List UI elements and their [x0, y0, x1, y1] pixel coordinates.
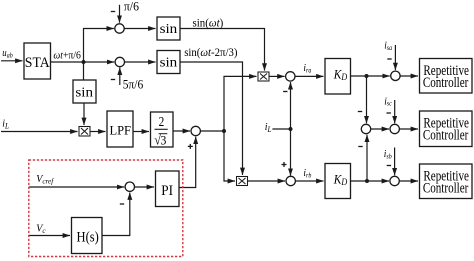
svg-text:Controller: Controller: [423, 74, 469, 91]
svg-text:Vcref: Vcref: [36, 174, 54, 185]
svg-text:uab: uab: [2, 47, 13, 59]
svg-text:irb: irb: [303, 168, 312, 180]
svg-text:isa: isa: [384, 40, 392, 52]
svg-text:LPF: LPF: [109, 123, 131, 137]
svg-text:Controller: Controller: [423, 126, 469, 143]
svg-text:sin: sin: [160, 22, 178, 37]
svg-text:STA: STA: [25, 55, 51, 71]
svg-text:iL: iL: [265, 122, 272, 134]
svg-text:iL: iL: [2, 118, 9, 130]
svg-text:2: 2: [159, 114, 165, 129]
svg-text:Vc: Vc: [36, 223, 46, 235]
svg-text:sin(ωt): sin(ωt): [193, 17, 224, 30]
svg-text:isb: isb: [384, 149, 393, 161]
svg-text:sin(ωt-2π/3): sin(ωt-2π/3): [184, 46, 237, 59]
svg-text:3: 3: [160, 133, 166, 148]
svg-text:PI: PI: [161, 182, 173, 199]
svg-text:sin: sin: [160, 55, 178, 70]
svg-text:sin: sin: [75, 85, 93, 100]
svg-text:isc: isc: [384, 96, 392, 108]
svg-text:H(s): H(s): [77, 229, 99, 246]
svg-text:5π/6: 5π/6: [123, 77, 144, 92]
svg-text:ωt+π/6: ωt+π/6: [53, 50, 81, 61]
svg-text:Controller: Controller: [423, 179, 469, 196]
svg-text:ira: ira: [303, 63, 311, 75]
svg-text:π/6: π/6: [124, 0, 139, 14]
